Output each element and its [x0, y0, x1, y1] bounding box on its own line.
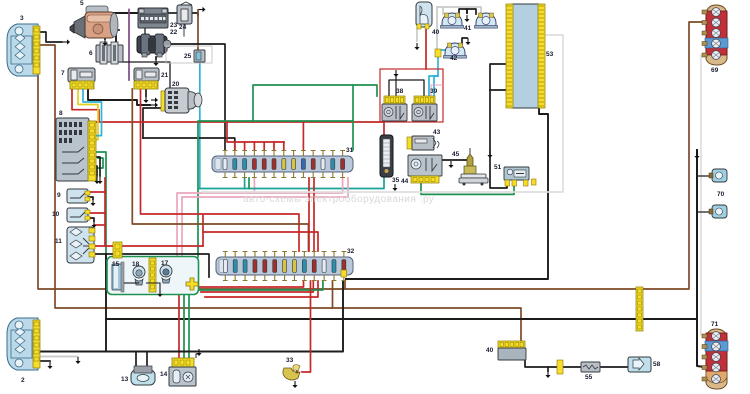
relay 43: [407, 136, 439, 150]
svg-text:40: 40: [432, 29, 440, 36]
motor 39: [412, 96, 437, 121]
svg-text:69: 69: [711, 67, 719, 74]
switch 25: [194, 50, 205, 62]
wire black-y319: [106, 318, 697, 320]
wire 38-39-black: [389, 80, 424, 96]
switch 11: [67, 227, 95, 263]
wire red-t3: [263, 142, 265, 150]
svg-text:51: 51: [494, 164, 502, 171]
wire 10-red: [88, 212, 105, 214]
inline connector on red wire: [113, 242, 122, 258]
svg-text:13: 13: [121, 376, 129, 383]
courtesy lamp 41b: [475, 13, 498, 28]
svg-text:5: 5: [80, 0, 84, 7]
ground 9: [90, 199, 95, 206]
wire 10-gndstub: [88, 218, 94, 221]
svg-text:3: 3: [20, 15, 24, 22]
switch 9: [67, 189, 90, 203]
ground 35: [392, 184, 397, 191]
wire black-32-l: [41, 281, 343, 352]
svg-text:71: 71: [711, 321, 719, 328]
svg-text:58: 58: [653, 361, 661, 368]
wire 21-gnd: [145, 89, 147, 96]
fuse box 32: [216, 252, 353, 281]
gauge 35: [380, 135, 393, 177]
instrument panel housing: [107, 257, 199, 295]
svg-text:14: 14: [160, 371, 168, 378]
ground 40: [414, 43, 419, 50]
wire 53-51: [490, 90, 507, 188]
yellow conn right of 51: [532, 179, 537, 185]
wire brown-25: [197, 10, 199, 50]
interior lamp 40: [416, 2, 432, 29]
wire gray-41a: [442, 7, 444, 14]
wire 7-cyan: [83, 88, 102, 136]
wire 13-drop2: [146, 352, 148, 368]
wire 14-green2: [188, 292, 190, 359]
wire starter-right: [114, 29, 119, 31]
svg-text:24: 24: [179, 24, 187, 31]
switch 44: [408, 155, 442, 183]
svg-text:10: 10: [52, 211, 60, 218]
wire bat-starter: [103, 12, 139, 14]
wire 41-black2: [467, 9, 476, 14]
wire white-53: [202, 35, 563, 192]
fuse box 31: [212, 151, 353, 178]
ground chain: [545, 371, 550, 378]
inline connector strip right: [636, 287, 643, 331]
wire alt-right: [167, 44, 225, 150]
wire 9-red: [88, 191, 105, 193]
wire red-y123: [99, 122, 384, 135]
wire 14-red: [178, 292, 180, 359]
sensor 14: [169, 358, 196, 386]
wire 70-stub1: [697, 175, 712, 177]
wire red-loop2: [201, 281, 313, 292]
sensor 33: [283, 365, 300, 381]
wire 40-red: [425, 28, 427, 69]
wire red-loop3: [205, 281, 318, 297]
wire 7-black-ign: [88, 90, 150, 105]
wire 11-red-y246: [94, 245, 203, 247]
yellow conn on cyan: [435, 49, 441, 57]
svg-text:20: 20: [172, 81, 180, 88]
wire 14-green1: [183, 292, 185, 359]
bulbs of 71: [702, 332, 720, 384]
wire brown-21: [132, 89, 308, 251]
wire chain-gnd: [547, 367, 549, 371]
wire green-main: [198, 85, 377, 257]
relay 21: [134, 68, 159, 89]
connector strip of 3: [33, 26, 40, 74]
starter motor 5: [70, 6, 118, 38]
ground starter: [102, 39, 107, 46]
wire cyan-31pin: [244, 178, 246, 189]
wire 53-loop2: [490, 89, 507, 91]
wire 24-right: [191, 13, 198, 15]
ground 53loop: [487, 151, 492, 158]
pins of 53: [507, 6, 545, 106]
svg-text:9: 9: [57, 192, 61, 199]
ignition switch 20: [161, 88, 202, 113]
connector strip of 2: [33, 320, 40, 368]
fuse box 6: [96, 42, 123, 64]
wire hl3-black-gnd: [41, 32, 62, 42]
side lamp 70a: [709, 169, 727, 182]
light switch block 8: [56, 118, 96, 181]
ground 33: [292, 381, 297, 388]
svg-text:38: 38: [396, 88, 404, 95]
svg-text:8: 8: [59, 110, 63, 117]
wire 13-drop1: [135, 352, 137, 368]
bulb 17: [160, 265, 172, 283]
panel inner wires: [124, 282, 139, 284]
svg-text:11: 11: [55, 238, 62, 245]
wire brown-32b: [344, 281, 346, 289]
svg-text:40: 40: [486, 347, 494, 354]
svg-text:33: 33: [286, 357, 294, 364]
ground 21b: [143, 96, 148, 103]
inline connector on black wire: [341, 270, 347, 277]
svg-text:17: 17: [161, 260, 169, 267]
battery 23: [138, 8, 168, 28]
voltage stabilizer 15: [112, 262, 124, 292]
rear lamp cluster 69: [705, 5, 728, 65]
wire 41-black: [459, 9, 467, 14]
fuel pump 45: [459, 148, 488, 186]
svg-text:6: 6: [89, 50, 93, 57]
wire red-31-32a: [308, 178, 310, 251]
svg-text:42: 42: [450, 55, 458, 62]
wire starter-gnd: [104, 34, 106, 39]
connector block 53: [506, 4, 545, 108]
svg-text:18: 18: [132, 261, 140, 268]
svg-text:23: 23: [170, 22, 178, 29]
wire red-t4: [273, 142, 275, 150]
wire 8-green-down: [94, 152, 109, 283]
ground 41: [464, 15, 469, 22]
wire pink-y197: [182, 178, 348, 257]
wire cyan-42b: [434, 76, 438, 96]
wire 11-black-y254: [94, 254, 209, 277]
wire 70-stub2: [697, 211, 712, 213]
wire starter-down: [115, 32, 117, 62]
gnd stub 14: [196, 354, 199, 358]
svg-text:22: 22: [170, 29, 178, 36]
wire blackloop: [346, 108, 548, 279]
wire red-t2: [253, 142, 255, 150]
wire gray-top: [437, 7, 481, 14]
ground hl3: [63, 39, 70, 44]
wire red-col: [104, 178, 106, 246]
svg-text:25: 25: [184, 53, 192, 60]
wire 9-gndstub: [88, 197, 93, 199]
ground 8stub2: [94, 177, 99, 184]
bulb 16: [133, 266, 145, 285]
wire 7-yellow: [78, 88, 98, 140]
courtesy lamp 41a: [441, 13, 464, 28]
wire green-loop: [193, 281, 323, 290]
ground ign1: [151, 97, 158, 102]
wire cyan-42: [429, 50, 446, 96]
wire red-t5: [283, 142, 285, 150]
ground panel: [157, 290, 162, 297]
wire cyan-25-down: [199, 61, 201, 189]
wire red-31-32b: [313, 178, 315, 251]
wire 8-blackstub2: [94, 166, 97, 176]
resistor 55: [581, 362, 600, 372]
wire hl2-gray: [41, 356, 78, 358]
svg-text:41: 41: [464, 25, 472, 32]
rear lamp cluster 71: [705, 329, 728, 389]
ground 45: [448, 161, 453, 168]
headlight 3: [7, 24, 38, 76]
relay 7: [68, 68, 95, 89]
headlight 2: [7, 318, 38, 370]
wire green-31: [352, 85, 354, 150]
wire red-21-loop: [141, 89, 300, 251]
svg-text:32: 32: [347, 248, 355, 255]
connector strip in panel: [149, 258, 156, 292]
ground 8stub: [97, 177, 102, 184]
wire cyan-y188: [200, 178, 384, 189]
wire ign-black3: [143, 108, 160, 138]
wire red-y232: [203, 232, 318, 251]
sensor 51: [504, 167, 529, 186]
wire 40-gray-gnd: [416, 28, 418, 41]
ground alt: [153, 59, 158, 66]
ground hl2: [75, 357, 80, 364]
svg-text:55: 55: [585, 374, 593, 381]
wire red-33: [302, 281, 311, 372]
wire hl2-blk2: [41, 360, 50, 362]
wire 7-red8: [72, 88, 99, 122]
courtesy lamp 42: [444, 43, 467, 58]
side lamp 70b: [709, 205, 727, 218]
alternator 22: [137, 34, 171, 57]
ground ignarrow: [151, 102, 158, 107]
wiring box outline (red): [380, 69, 443, 122]
wire alt-gnd: [155, 57, 157, 59]
svg-text:44: 44: [401, 178, 409, 185]
svg-text:31: 31: [346, 147, 354, 154]
svg-text:авто-схемы электрооборудовани: авто-схемы электрооборудования .ру: [243, 193, 434, 205]
wire 11-black-down: [105, 254, 107, 352]
wire pink-y193: [177, 178, 343, 257]
ground 70: [694, 152, 699, 159]
svg-text:53: 53: [546, 51, 554, 58]
cross connector: [186, 278, 198, 290]
wire green-31pin: [248, 178, 250, 189]
wire 44-45b: [442, 160, 470, 166]
switch 13: [131, 366, 155, 385]
heater block 49: [498, 341, 526, 360]
wire gray-down42: [436, 7, 438, 49]
bulbs of 69: [702, 8, 720, 60]
ground 10: [91, 221, 96, 228]
wire 8-green-x: [94, 158, 103, 168]
wire red-step31: [227, 122, 284, 142]
wire 42-black: [462, 38, 467, 44]
ground 24: [199, 7, 206, 12]
wire black-y138: [143, 138, 235, 150]
regulator outline near 22: [166, 46, 212, 63]
wire bat-down: [144, 28, 146, 34]
wire 8-blackstub: [94, 157, 100, 176]
svg-text:70: 70: [717, 191, 725, 198]
wire hl3-brownB: [38, 22, 704, 289]
svg-text:15: 15: [112, 261, 120, 268]
wire red-t0: [234, 142, 236, 150]
wire chain: [525, 360, 628, 367]
ground 42: [465, 38, 470, 45]
inline connector near 55: [557, 360, 563, 374]
wire bat-24: [167, 12, 177, 14]
wire hl3-brownA: [41, 45, 521, 341]
svg-text:43: 43: [433, 129, 441, 136]
switch 10: [67, 208, 90, 222]
wire 24-down: [183, 24, 185, 36]
wire green-44-51: [421, 183, 514, 194]
relay 24: [177, 2, 192, 24]
wire red-x203: [202, 215, 204, 246]
wire green-y121b: [253, 120, 353, 122]
svg-text:39: 39: [430, 88, 438, 95]
wire 11-red1: [94, 224, 105, 226]
wire pink-31pin: [253, 178, 255, 193]
svg-text:45: 45: [452, 151, 460, 158]
ground 38gnd: [393, 70, 398, 77]
svg-text:35: 35: [392, 177, 400, 184]
wire red-y123-br: [302, 122, 304, 150]
wire brown-32a: [332, 281, 334, 308]
motor 38: [382, 96, 407, 121]
ground hl2b: [47, 362, 52, 369]
inner pink outline: [431, 85, 443, 121]
motor 58: [628, 357, 651, 372]
wire 38-gnd: [395, 76, 397, 96]
ground 14stub: [196, 349, 201, 356]
wire red-loop1: [197, 281, 304, 287]
svg-text:21: 21: [161, 72, 169, 79]
wire red-t1: [244, 142, 246, 150]
wire purple-bat-21: [128, 10, 130, 81]
svg-text:7: 7: [61, 70, 65, 77]
wire white-69: [701, 55, 704, 336]
svg-text:2: 2: [21, 377, 25, 384]
wire 53-loop: [490, 64, 507, 90]
wire box6-ign: [112, 62, 170, 88]
wire black-70: [697, 150, 704, 367]
